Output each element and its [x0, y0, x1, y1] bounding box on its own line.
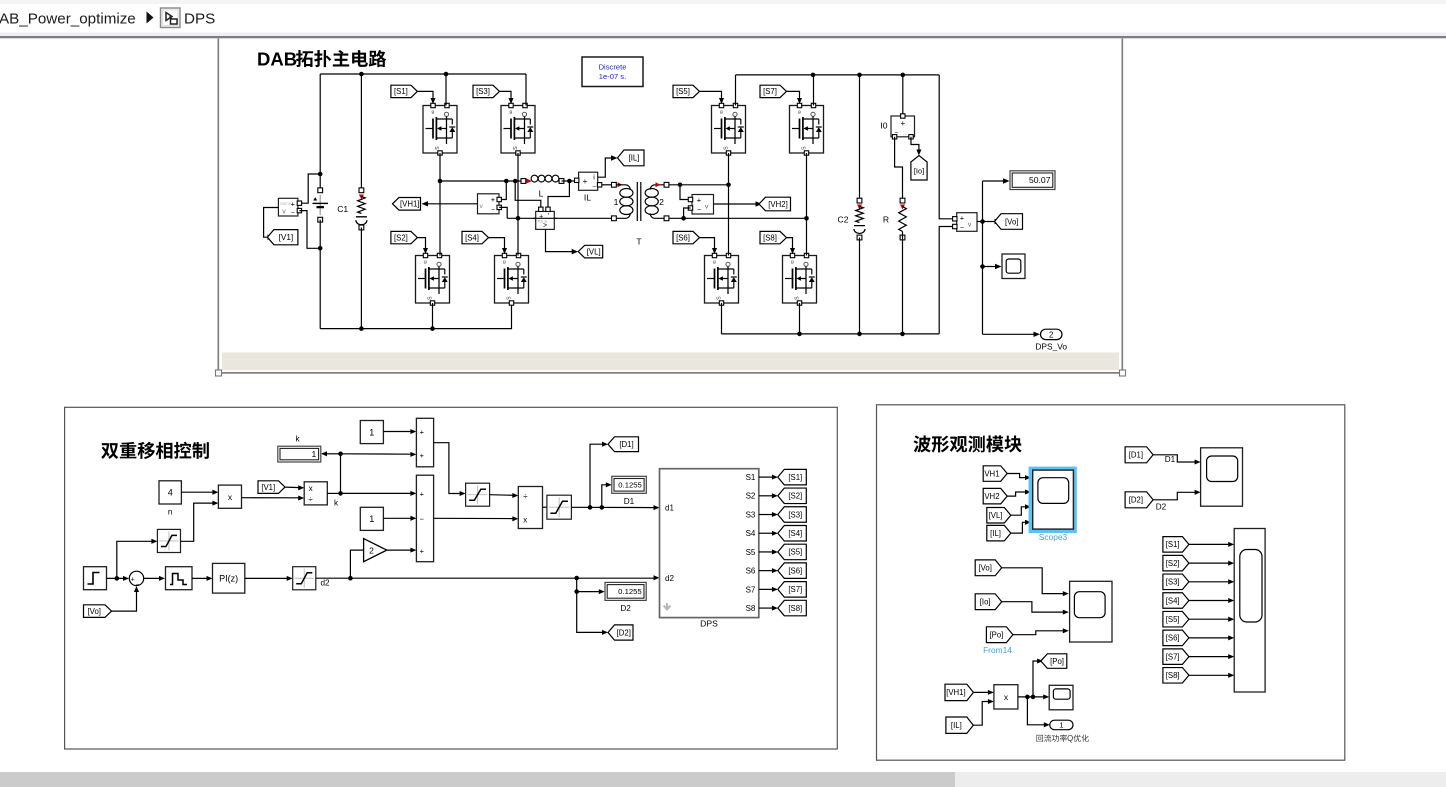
wire secondary top rail — [736, 74, 940, 76]
current measurement IL — [575, 172, 602, 190]
mosfet S4 — [495, 253, 529, 305]
wire leg B midpoint — [517, 153, 519, 256]
wire Po to scopeVIP — [1013, 631, 1065, 635]
discrete PI controller — [213, 563, 245, 593]
wire to k display — [325, 453, 341, 455]
wire d2 to DPS — [316, 577, 656, 579]
wire gain to sum2 — [387, 549, 413, 551]
svg-text:[VL]: [VL] — [587, 247, 601, 256]
wire step to sum — [107, 577, 126, 579]
wire S2 source — [432, 303, 434, 329]
goto tag S8 control — [778, 600, 807, 616]
goto tag S4 control — [778, 525, 807, 541]
svg-text:[IL]: [IL] — [629, 154, 640, 163]
svg-text:2: 2 — [659, 197, 664, 207]
svg-text:VH2: VH2 — [984, 492, 999, 501]
svg-text:[D1]: [D1] — [619, 440, 633, 449]
svg-text:g: g — [510, 110, 513, 115]
mosfet S1 — [423, 103, 457, 155]
wire S7 gate — [787, 91, 800, 99]
svg-text:S: S — [717, 296, 723, 300]
svg-text:[S7]: [S7] — [1166, 652, 1180, 661]
svg-text:1: 1 — [614, 197, 619, 207]
svg-text:S: S — [802, 146, 808, 150]
mosfet S5 — [712, 103, 746, 155]
wire to D1 goto — [590, 444, 604, 507]
svg-text:+: + — [491, 195, 496, 204]
junction outport tap — [1025, 695, 1030, 700]
svg-text:...: ... — [903, 131, 907, 137]
zero-order hold block — [166, 567, 193, 590]
junction step tap — [115, 576, 120, 581]
constant one lower — [360, 507, 383, 530]
from tag S3 waveform — [1163, 574, 1189, 590]
from tag IL power — [946, 717, 973, 733]
junction S8 bottom — [797, 332, 802, 337]
svg-text:−: − — [592, 184, 596, 191]
svg-text:From14: From14 — [983, 645, 1012, 655]
wire S1 to goto — [759, 476, 774, 478]
sum block upper — [416, 418, 433, 467]
junction midpoint A2 — [726, 183, 731, 188]
svg-text:[VL]: [VL] — [989, 511, 1003, 520]
junction S1 drain — [444, 72, 449, 77]
wire S6 source — [721, 303, 723, 334]
svg-text:+: + — [697, 195, 702, 204]
from tag S6 — [673, 231, 700, 243]
saturation D1 — [547, 495, 572, 519]
wire VH1 output — [424, 203, 478, 205]
wire to outport1 — [1027, 697, 1045, 725]
goto tag Vo — [995, 214, 1023, 230]
wire S1 gate — [417, 91, 433, 99]
goto tag VH2 — [759, 197, 791, 211]
mosfet S6 — [705, 253, 739, 305]
junction C2 top — [857, 73, 862, 78]
svg-text:S: S — [435, 146, 441, 150]
from tag VH1 scope3 — [983, 466, 1007, 482]
wire sum2 to divide2 — [434, 517, 515, 519]
wire S6 gate — [700, 238, 715, 250]
svg-text:Q: Q — [1067, 734, 1073, 743]
scope D1 D2 — [1201, 448, 1243, 506]
wire secondary bottom rail — [722, 333, 940, 335]
wire S6 to goto — [759, 570, 774, 572]
svg-text:g: g — [424, 260, 427, 265]
constant n = 4 — [159, 481, 181, 504]
wire VH2 minus — [684, 208, 691, 218]
svg-text:+: + — [420, 451, 425, 460]
svg-text:g: g — [791, 260, 794, 265]
wire to D1 display — [602, 485, 608, 508]
from tag Io waveform — [975, 594, 1002, 610]
svg-text:[V1]: [V1] — [261, 483, 275, 492]
svg-text:[Vo]: [Vo] — [1005, 217, 1018, 226]
goto tag Po — [1041, 654, 1067, 669]
svg-text:g: g — [713, 260, 716, 265]
svg-text:Discrete: Discrete — [599, 63, 627, 72]
divide block k — [304, 482, 327, 505]
svg-text:+: + — [420, 546, 425, 555]
goto tag VH1 — [393, 198, 421, 211]
svg-text:S3: S3 — [746, 510, 756, 519]
wire one to sum2 — [383, 517, 412, 519]
mosfet S2 — [416, 253, 450, 305]
wire VL minus — [548, 181, 569, 207]
wire PI to saturation — [245, 577, 289, 579]
svg-text:+: + — [291, 199, 296, 208]
series RC branch C1 — [356, 74, 367, 329]
svg-text:[D2]: [D2] — [617, 628, 631, 637]
wire VH1 to scope3 — [1007, 474, 1027, 478]
svg-text:÷: ÷ — [308, 495, 313, 504]
mosfet S3 — [501, 103, 535, 155]
svg-text:g: g — [798, 110, 801, 115]
wire divide out — [327, 492, 340, 494]
svg-text:2: 2 — [1049, 331, 1053, 340]
svg-text:+: + — [960, 214, 965, 223]
junction D1 display tap — [600, 505, 605, 510]
voltage measurement VH1 — [478, 194, 502, 214]
wire S8 gate — [787, 238, 793, 250]
svg-text:[Po]: [Po] — [989, 631, 1003, 640]
wire leg B2 — [806, 153, 808, 256]
svg-text:[VH1]: [VH1] — [400, 200, 420, 209]
wire sat1 to product — [181, 503, 215, 541]
wire step to saturation1 — [117, 541, 154, 578]
wire S2 to scope — [1189, 562, 1230, 564]
wire S8 to scope — [1189, 674, 1230, 676]
title waveform observation module — [914, 435, 1022, 452]
from tag D1 waveform — [1125, 447, 1153, 463]
mosfet S7 — [790, 103, 824, 155]
svg-text:DAB: DAB — [257, 49, 297, 70]
svg-text:': ' — [548, 213, 549, 220]
voltage measurement VL — [536, 207, 555, 229]
from tag D2 waveform — [1125, 492, 1153, 508]
svg-text:S6: S6 — [746, 567, 756, 576]
wire S5 drain — [735, 75, 737, 106]
svg-text:[S3]: [S3] — [788, 510, 802, 519]
svg-text:÷: ÷ — [523, 492, 528, 501]
from tag V1 control — [258, 481, 285, 494]
constant one upper — [360, 421, 383, 444]
svg-text:[S6]: [S6] — [676, 233, 690, 242]
svg-text:[Po]: [Po] — [1050, 657, 1064, 666]
wire sum1 to sat3 — [434, 443, 462, 494]
wire S8 source — [799, 303, 801, 334]
wire DC source bottom lead — [319, 220, 321, 329]
svg-text:Scope3: Scope3 — [1039, 532, 1068, 542]
svg-text:[S6]: [S6] — [788, 566, 802, 575]
svg-text:[S2]: [S2] — [1166, 559, 1180, 568]
goto tag D1 — [608, 437, 639, 452]
from tag S7 waveform — [1163, 649, 1189, 665]
junction V1 minus tap — [318, 246, 323, 251]
goto tag S5 control — [778, 544, 807, 560]
goto tag D2 — [608, 625, 633, 640]
wire V1 minus — [299, 211, 320, 249]
horizontal scrollbar — [0, 772, 1446, 787]
svg-text:−: − — [135, 581, 139, 588]
svg-text:IL: IL — [584, 193, 591, 203]
svg-text:[S1]: [S1] — [394, 87, 408, 96]
wire D1 to DPS — [571, 506, 655, 508]
svg-text:[IL]: [IL] — [951, 721, 962, 730]
svg-text:[Io]: [Io] — [980, 598, 991, 607]
svg-text:C2: C2 — [838, 215, 849, 225]
svg-text:−: − — [291, 210, 295, 217]
junction VH2 minus tap — [681, 216, 686, 221]
wire to D2 goto — [577, 578, 604, 632]
from tag Vo waveform — [975, 560, 1002, 576]
svg-text:+: + — [131, 577, 135, 584]
svg-text:R: R — [883, 215, 889, 225]
scope Scope3 selected — [1029, 467, 1077, 533]
svg-text:S5: S5 — [746, 548, 756, 557]
voltage measurement Vo block — [953, 213, 977, 232]
wire product out — [1018, 696, 1045, 698]
wire one to sum1 — [383, 431, 412, 433]
junction k display — [338, 452, 343, 457]
svg-text:−: − — [960, 225, 964, 232]
svg-text:D2: D2 — [620, 604, 631, 613]
wire VL to scope3 — [1011, 507, 1027, 515]
outport 1 Q optimize — [1050, 720, 1073, 730]
junction C1 bottom — [359, 326, 364, 331]
svg-text:[S7]: [S7] — [763, 87, 777, 96]
wire S7 to goto — [759, 588, 774, 590]
goto tag VL — [578, 245, 603, 258]
wire primary bottom rail — [320, 303, 511, 329]
from tag S1 — [391, 85, 418, 97]
from tag S3 — [473, 85, 500, 97]
svg-text:S: S — [795, 296, 801, 300]
svg-text:PI(z): PI(z) — [219, 573, 238, 583]
svg-text:[S2]: [S2] — [394, 233, 408, 242]
wire right rail to v minus — [939, 227, 952, 334]
DC voltage source Vdc — [313, 188, 329, 222]
subsystem DPS — [660, 469, 759, 618]
transformer T — [612, 182, 669, 221]
svg-text:[S6]: [S6] — [1166, 634, 1180, 643]
inductor L — [521, 175, 564, 183]
wire IL output — [598, 158, 614, 177]
wire inductor to IL — [562, 180, 577, 182]
junction VL plus tap — [513, 179, 518, 184]
from tag S1 waveform — [1163, 537, 1189, 553]
wire IL to product — [973, 702, 990, 726]
from tag S5 waveform — [1163, 611, 1189, 627]
svg-text:[S7]: [S7] — [788, 585, 802, 594]
scope output voltage — [1002, 254, 1025, 279]
goto tag S7 control — [778, 582, 807, 598]
display D1 — [612, 476, 647, 493]
svg-text:[S5]: [S5] — [1166, 615, 1180, 624]
wire sat3 to divide2 — [490, 494, 515, 497]
svg-text:S: S — [513, 146, 519, 150]
wire midpoint B to transformer — [507, 217, 614, 219]
svg-text:[S2]: [S2] — [788, 492, 802, 501]
svg-text:PS S: PS S — [538, 219, 548, 224]
red arrow secondary — [656, 182, 661, 187]
scope power — [1049, 685, 1073, 710]
junction VH1 tap — [504, 179, 509, 184]
wire S2 to goto — [759, 495, 774, 497]
svg-text:T: T — [636, 237, 642, 247]
product power block — [994, 685, 1018, 709]
wire I0 to R — [895, 137, 903, 201]
from tag S6 waveform — [1163, 630, 1189, 646]
wire S4 to scope — [1189, 600, 1230, 602]
wire secondary bottom to midpoint B2 — [669, 217, 807, 219]
from tag S2 — [391, 231, 418, 243]
wire k to sum1 — [341, 453, 413, 455]
main circuit area box — [216, 39, 1126, 377]
goto tag IL — [618, 150, 645, 166]
wire k to sum2 — [341, 492, 413, 494]
wire VH1 plus — [501, 181, 506, 200]
svg-text:+: + — [583, 177, 588, 186]
svg-text:−: − — [420, 514, 425, 523]
svg-text:S4: S4 — [746, 529, 756, 538]
svg-text:g: g — [720, 110, 723, 115]
from tag Vo control — [84, 605, 112, 618]
goto tag Io — [911, 156, 927, 181]
junction S2 source — [430, 326, 435, 331]
scope S1-S8 — [1234, 529, 1265, 693]
wire DC source top lead — [319, 74, 321, 190]
junction S7 drain — [811, 73, 816, 78]
voltage measurement VH2 — [688, 195, 713, 215]
svg-text:[D1]: [D1] — [1129, 451, 1143, 460]
wire to outport — [983, 333, 1037, 335]
svg-text:[V1]: [V1] — [279, 233, 294, 242]
current measurement I0 — [891, 75, 915, 139]
svg-text:[VH2]: [VH2] — [768, 200, 788, 209]
svg-text:[Vo]: [Vo] — [978, 564, 991, 573]
wire VH1 to product — [973, 691, 990, 693]
wire to scope1 — [983, 266, 998, 268]
junction gain tap — [348, 576, 353, 581]
wire k up — [340, 454, 342, 494]
svg-text:1: 1 — [369, 514, 374, 524]
wire IL to scope3 — [1011, 522, 1027, 533]
sum junction circle — [129, 571, 143, 588]
svg-text:v: v — [282, 209, 286, 216]
step block — [84, 567, 107, 590]
svg-text:+: + — [420, 428, 425, 437]
wire S3 to goto — [759, 514, 774, 516]
wire leg A midpoint — [439, 153, 441, 256]
svg-text:I0: I0 — [880, 121, 887, 131]
wire midpoint A to inductor — [440, 180, 523, 182]
svg-text:[D2]: [D2] — [1129, 496, 1143, 505]
svg-text:[Vo]: [Vo] — [88, 607, 101, 616]
junction D2 display tap — [574, 589, 579, 594]
from tag S4 waveform — [1163, 593, 1189, 609]
wire I0 output — [911, 137, 919, 152]
wire S5 to goto — [759, 551, 774, 553]
svg-text:2: 2 — [369, 545, 374, 555]
junction v out — [980, 219, 985, 224]
wire right rail to v plus — [939, 75, 952, 219]
junction D1 goto tap — [588, 505, 593, 510]
svg-text:−: − — [491, 207, 495, 214]
svg-text:DPS_Vo: DPS_Vo — [1035, 342, 1067, 352]
divide block 2 — [518, 487, 542, 529]
goto tag S3 control — [778, 507, 807, 523]
wire V1 plus — [302, 174, 321, 203]
gain 2 — [364, 539, 387, 562]
junction D2 tap — [574, 576, 579, 581]
title DAB main circuit — [257, 49, 386, 70]
svg-text:[S3]: [S3] — [476, 87, 490, 96]
wire crossing VL block — [533, 217, 557, 219]
svg-text:S: S — [507, 296, 513, 300]
wire VH2 to scope3 — [1007, 492, 1027, 496]
wire VH1 minus — [499, 207, 507, 218]
title dual phase shift control — [101, 442, 209, 459]
wire Vo to sum — [112, 590, 137, 611]
junction midpoint B2 — [804, 216, 809, 221]
from tag S4 — [462, 231, 489, 243]
svg-text:DPS: DPS — [184, 11, 215, 28]
wire n to product — [181, 491, 214, 493]
svg-text:1: 1 — [369, 427, 374, 437]
svg-text:[S4]: [S4] — [788, 529, 802, 538]
goto tag S2 control — [778, 488, 807, 504]
saturation d2 — [293, 567, 316, 590]
svg-text:L: L — [539, 189, 544, 199]
wire Vo to scopeVIP — [1002, 568, 1065, 594]
wire divide2 to sat4 — [543, 506, 547, 508]
wire VL output — [546, 229, 575, 251]
breadcrumb toolbar — [0, 0, 1446, 38]
scope Vo Io Po — [1070, 581, 1112, 642]
svg-text:d1: d1 — [665, 504, 674, 513]
svg-text:[S8]: [S8] — [763, 233, 777, 242]
powergui Discrete block — [582, 57, 643, 87]
junction R bottom — [900, 332, 905, 337]
svg-text:d2: d2 — [320, 578, 330, 587]
from tag VH2 scope3 — [983, 488, 1007, 504]
svg-text:[VH1]: [VH1] — [946, 688, 966, 697]
wire Io to scopeVIP — [1002, 602, 1065, 612]
display Vo 50.07 — [1010, 171, 1055, 190]
svg-text:D1: D1 — [624, 497, 635, 506]
svg-text:S7: S7 — [746, 585, 756, 594]
wire V1 output — [264, 208, 279, 238]
wire S4 to goto — [759, 532, 774, 534]
svg-text:S8: S8 — [746, 604, 756, 613]
svg-text:D2: D2 — [1156, 503, 1167, 512]
junction VL minus tap — [567, 179, 572, 184]
wire S5 gate — [700, 91, 722, 99]
svg-text:[S5]: [S5] — [788, 548, 802, 557]
from tag VL scope3 — [987, 508, 1011, 524]
junction midpoint B — [516, 216, 521, 221]
svg-text:DPS: DPS — [700, 619, 718, 629]
wire D1 to scopeD — [1153, 455, 1197, 462]
display k — [278, 446, 321, 462]
svg-text:[S1]: [S1] — [788, 473, 802, 482]
wire v output — [977, 221, 983, 223]
svg-text:+: + — [900, 119, 905, 128]
wire S7 drain — [813, 75, 815, 106]
svg-text:S2: S2 — [746, 492, 756, 501]
wire V1 to divide — [285, 486, 300, 489]
